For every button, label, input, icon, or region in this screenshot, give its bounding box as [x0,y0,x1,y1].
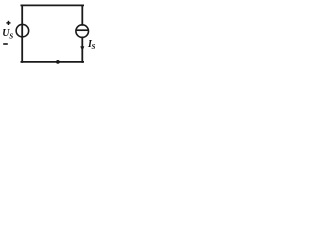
wire top [21,4,83,6]
wire right bottom [81,37,83,62]
label plus [6,21,10,25]
svg-text:S: S [92,43,96,51]
arrow current direction Is [81,47,85,51]
label minus [3,43,8,45]
wire bottom [21,61,83,63]
svg-text:S: S [9,33,13,41]
junction node dot [56,60,60,64]
wire left [21,5,23,62]
voltage source U1 [16,24,29,37]
current source I1 [76,25,89,38]
wire right top [81,5,83,24]
